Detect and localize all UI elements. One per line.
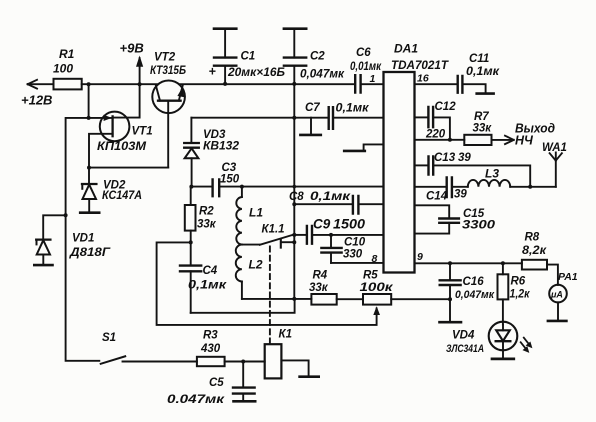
ground bar under C5 — [234, 400, 256, 403]
svg-text:C15: C15 — [463, 208, 485, 220]
svg-text:C14: C14 — [426, 191, 448, 203]
wire C9 node to chip — [331, 234, 384, 236]
svg-text:33к: 33к — [473, 123, 493, 135]
inductor L2 — [236, 245, 263, 299]
wire R3 to relay K1 — [225, 361, 265, 363]
svg-text:R3: R3 — [203, 330, 218, 342]
potentiometer R5 — [360, 270, 395, 305]
svg-text:C1: C1 — [241, 51, 256, 63]
junction dot L (tank wire / main vertical) — [293, 185, 297, 189]
resistor R7 — [464, 111, 492, 145]
junction dot I (VD3 net / main vertical) — [292, 116, 296, 120]
wire R4 to R5 — [337, 298, 363, 300]
ground bar below C7 left — [300, 134, 320, 137]
node +9V arrow — [120, 41, 144, 85]
svg-text:R4: R4 — [313, 270, 328, 282]
junction dot K (C3 / L1 / chip wire) — [240, 185, 244, 189]
junction dot M (R2 / C4 / wiper feed) — [189, 240, 193, 244]
capacitor C6 — [350, 47, 382, 93]
svg-text:C16: C16 — [463, 276, 485, 288]
resistor R3 — [197, 330, 225, 367]
switch S1 — [101, 332, 126, 364]
node +12V input arrow — [21, 80, 54, 108]
transistor VT2 KT315B — [150, 52, 186, 114]
capacitor C11 — [458, 53, 501, 93]
relay coil K1 — [265, 329, 292, 379]
svg-text:КТ315Б: КТ315Б — [150, 63, 186, 77]
capacitor C5 — [167, 362, 255, 407]
svg-text:VD4: VD4 — [452, 330, 475, 342]
resistor R1 — [53, 47, 82, 89]
svg-text:ЗЛС341А: ЗЛС341А — [446, 343, 484, 355]
wire chip to R7 — [415, 139, 465, 141]
wire R2-C4 node to R5 wiper — [157, 242, 377, 325]
junction dot V (pin9 / R6) — [501, 261, 505, 265]
svg-text:100: 100 — [53, 62, 73, 76]
junction dot Q (C8 / main vertical) — [292, 202, 296, 206]
inductor L1 — [236, 187, 263, 245]
svg-text:C2: C2 — [310, 51, 325, 63]
capacitor C7 — [305, 102, 370, 129]
svg-text:C8: C8 — [289, 191, 304, 203]
ground bar right of K1 — [300, 375, 319, 378]
svg-text:C11: C11 — [469, 53, 489, 65]
arrowhead R5 wiper — [373, 306, 380, 315]
contact K1.1 — [242, 224, 294, 248]
resistor R6 — [498, 263, 531, 324]
svg-text:100к: 100к — [360, 282, 395, 294]
svg-text:TDA7021T: TDA7021T — [391, 60, 449, 72]
svg-text:8,2к: 8,2к — [522, 245, 547, 257]
svg-text:1,2к: 1,2к — [510, 289, 531, 301]
capacitor C12 — [415, 101, 457, 141]
junction dot C (VT1 source / VD2 / VT2 base) — [87, 166, 91, 170]
junction dot G (rail/C1) — [223, 82, 227, 86]
capacitor C2 — [284, 30, 345, 84]
capacitor C13 — [415, 152, 531, 187]
capacitor C16 — [440, 263, 496, 322]
svg-text:C6: C6 — [356, 47, 371, 59]
junction dot U (pin9 / C16) — [448, 261, 452, 265]
resistor R4 — [309, 270, 337, 305]
svg-text:1: 1 — [370, 73, 376, 85]
svg-text:R1: R1 — [59, 47, 75, 61]
svg-text:К1.1: К1.1 — [262, 224, 285, 236]
wire top rail right (VT2 emitter to C6) — [180, 83, 355, 85]
junction dot E (left rail / VD1 stub) — [64, 213, 68, 217]
junction dot W (C16 / R5 line) — [448, 297, 452, 301]
ground bar under C11 — [477, 92, 494, 95]
wire left rail down to S1 — [66, 215, 100, 360]
wire pin 16 to C11 — [415, 83, 457, 85]
svg-text:33к: 33к — [197, 219, 217, 231]
grounded pin stub on chip left — [364, 144, 384, 150]
ground bar under PA1 — [548, 320, 567, 323]
svg-text:C12: C12 — [435, 101, 457, 113]
wire R5 to C16 node — [391, 298, 450, 300]
junction dot F (C5 tap) — [241, 360, 245, 364]
resistor R8 — [522, 232, 547, 270]
zener diode VD1 D818G — [36, 215, 110, 264]
ground bar above C2 — [284, 27, 306, 30]
junction dot A (rail / VT1 gate drop) — [87, 82, 91, 86]
ground bar under VD2 — [80, 211, 99, 214]
capacitor C10 — [321, 235, 365, 263]
svg-text:К1: К1 — [279, 329, 292, 341]
wire R8 to PA1 — [547, 265, 558, 285]
capacitor C15 — [415, 205, 496, 233]
svg-text:20мк×16Б: 20мк×16Б — [227, 67, 285, 79]
resistor R2 — [185, 187, 217, 243]
svg-text:Д818Г: Д818Г — [69, 245, 111, 259]
svg-text:1500: 1500 — [333, 217, 366, 232]
svg-text:9: 9 — [417, 251, 423, 263]
capacitor C14 — [415, 178, 468, 203]
wire C4 bottom to tank bottom — [191, 299, 295, 313]
capacitor C9 — [294, 217, 365, 244]
varicap diode VD3 KV132 — [184, 118, 239, 187]
svg-text:150: 150 — [220, 174, 240, 186]
wire VT2 base lead down — [167, 101, 169, 168]
wire C10 to pin 8 — [331, 262, 384, 264]
svg-text:WA1: WA1 — [542, 142, 567, 154]
wire VT1 gate drop from rail — [88, 84, 90, 118]
junction dot D (gate / left rail jog) — [87, 116, 91, 120]
junction dot S (C12 / R7 wire) — [448, 138, 452, 142]
svg-text:220: 220 — [425, 129, 446, 141]
ground bar under VD4 — [492, 358, 514, 361]
ground drop on VD3-C7 net — [310, 118, 312, 135]
svg-text:PA1: PA1 — [558, 271, 578, 283]
wire tank to chip — [242, 186, 384, 188]
svg-text:C4: C4 — [203, 265, 218, 277]
ground bar above C1 — [214, 27, 236, 30]
dashed mechanical link K1.1-K1 — [269, 247, 271, 345]
LED VD4 3LS341A — [446, 322, 532, 359]
wire C6 to pin 1 — [361, 83, 383, 85]
svg-text:R7: R7 — [474, 111, 489, 123]
antenna WA1 — [542, 142, 567, 187]
junction dot O (contact stub) — [292, 240, 296, 244]
capacitor C4 — [180, 242, 227, 312]
svg-text:L3: L3 — [485, 167, 499, 181]
wire top rail left (R1 to VT2) — [82, 83, 158, 85]
svg-text:VD1: VD1 — [72, 233, 94, 245]
IC DA1 TDA7021T — [384, 42, 449, 273]
svg-text:C9: C9 — [313, 217, 331, 232]
svg-text:S1: S1 — [102, 332, 116, 344]
svg-text:39: 39 — [458, 152, 471, 164]
transistor VT1 KP103M — [88, 84, 152, 167]
svg-text:0,1мк: 0,1мк — [466, 66, 500, 78]
ground bar under C16 — [440, 321, 462, 324]
svg-text:C13: C13 — [434, 152, 456, 164]
wire C7 to chip — [334, 117, 384, 119]
svg-text:3300: 3300 — [462, 220, 496, 232]
svg-text:0,1мк: 0,1мк — [310, 189, 351, 203]
svg-text:16: 16 — [417, 73, 429, 85]
svg-text:0,1мк: 0,1мк — [336, 103, 370, 115]
capacitor C3 — [191, 162, 242, 196]
svg-text:C7: C7 — [305, 102, 320, 114]
svg-text:+9В: +9В — [120, 41, 144, 56]
svg-text:DA1: DA1 — [394, 42, 418, 56]
junction dot R (C9 / C10 / chip) — [329, 233, 333, 237]
junction dot H (rail/C2/main vertical) — [292, 82, 296, 86]
svg-text:330: 330 — [343, 249, 363, 261]
svg-text:μА: μА — [550, 289, 563, 299]
inductor L3 — [468, 167, 556, 187]
junction dot P (tank bottom / R4 line) — [292, 297, 296, 301]
wire K1 to ground — [281, 360, 308, 376]
svg-text:КС147А: КС147А — [102, 188, 142, 202]
microammeter PA1 — [549, 271, 578, 320]
svg-text:R8: R8 — [525, 232, 540, 244]
svg-text:L2: L2 — [249, 258, 263, 272]
svg-text:R5: R5 — [363, 270, 378, 282]
svg-text:КП103М: КП103М — [97, 139, 147, 153]
wire S1 to R3 — [123, 361, 197, 363]
wire VD3-C7 net — [191, 117, 328, 119]
svg-text:КВ132: КВ132 — [203, 139, 239, 153]
svg-text:0.047мк: 0.047мк — [167, 392, 225, 406]
ground bar below stub — [344, 150, 365, 153]
main vertical net (C2 / tank / C8 / C9) — [293, 84, 295, 299]
svg-text:+12В: +12В — [21, 93, 52, 108]
svg-text:C3: C3 — [222, 162, 237, 174]
zener diode VD2 KS147A — [82, 168, 142, 213]
svg-text:L1: L1 — [249, 206, 263, 220]
svg-text:39: 39 — [454, 189, 467, 201]
junction dot J (VD3 / C3 / R2) — [189, 185, 193, 189]
wire VT2 base to VT1 source node — [89, 167, 168, 169]
svg-text:0,01мк: 0,01мк — [350, 61, 382, 73]
capacitor C8 — [289, 189, 384, 214]
svg-text:0,1мк: 0,1мк — [188, 278, 227, 292]
svg-text:0,047мк: 0,047мк — [300, 69, 345, 81]
junction dot B (rail / +9V / VT1 drain) — [138, 82, 142, 86]
svg-text:R6: R6 — [511, 276, 526, 288]
capacitor C1 (electrolytic) — [209, 30, 286, 84]
wire jog to left rail — [66, 118, 89, 215]
junction dot T (C13 / L3 / antenna) — [528, 185, 532, 189]
wire pin 9 to R8 — [415, 262, 522, 264]
svg-text:VT1: VT1 — [132, 126, 153, 138]
svg-text:C10: C10 — [344, 237, 366, 249]
wire tank bottom line to R4 — [242, 298, 312, 300]
node output arrow (Vykhod NCh) — [492, 122, 556, 148]
ground bar under VD1 — [34, 264, 52, 267]
svg-text:8: 8 — [372, 253, 378, 265]
svg-text:VT2: VT2 — [154, 52, 176, 64]
svg-text:C5: C5 — [209, 377, 224, 389]
svg-text:33к: 33к — [309, 282, 329, 294]
svg-text:0,047мк: 0,047мк — [455, 289, 495, 301]
junction dot N (lever / C9 node) — [292, 233, 296, 237]
svg-text:R2: R2 — [199, 206, 214, 218]
svg-text:НЧ: НЧ — [515, 134, 534, 148]
svg-text:430: 430 — [200, 343, 221, 355]
svg-text:+: + — [209, 65, 217, 79]
